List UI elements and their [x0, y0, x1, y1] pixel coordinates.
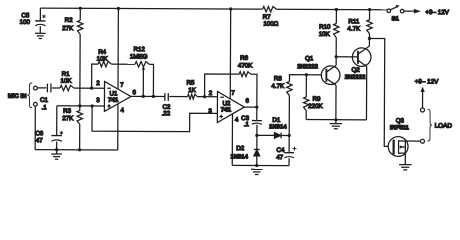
wire R3 to ground rail	[79, 124, 81, 149]
wire R4 leg from pin2	[92, 64, 99, 88]
wire S1 to supply arrow	[404, 10, 414, 12]
svg-text:27K: 27K	[62, 25, 74, 32]
capacitor C2	[164, 93, 166, 101]
wire C2 to R5	[169, 96, 187, 98]
svg-text:+9– 12V: +9– 12V	[415, 78, 439, 85]
terminal mic in hot	[34, 86, 38, 90]
svg-text:R5: R5	[187, 79, 196, 86]
node Q1 collector Q2 base	[335, 55, 338, 58]
node rail junction U2 pin7	[229, 7, 232, 10]
svg-text:47: 47	[276, 154, 283, 161]
wire R6 left leg	[205, 74, 240, 97]
svg-text:6: 6	[133, 89, 137, 96]
svg-text:470K: 470K	[238, 62, 253, 69]
resistor R6	[239, 72, 251, 77]
node rail junction U1 pin7	[117, 7, 120, 10]
wire detector to D1	[257, 134, 275, 136]
diode D1	[274, 133, 280, 139]
svg-text:R3: R3	[63, 108, 72, 115]
node detector ground	[255, 164, 258, 167]
node base R9 tap	[305, 73, 308, 76]
svg-text:3: 3	[208, 108, 212, 115]
wire C5 to ground	[39, 26, 41, 33]
wire Q2 emitter drop	[365, 67, 367, 120]
svg-text:C1: C1	[40, 97, 49, 104]
ground under Q3	[399, 164, 411, 166]
node U2 pin2 R6 tap	[203, 95, 206, 98]
node ground rail R3	[78, 148, 81, 151]
capacitor C5	[35, 20, 45, 22]
wire Q1 emitter drop	[335, 85, 337, 119]
wire U1 pin4 to ground rail	[117, 104, 119, 150]
svg-text:R8: R8	[274, 75, 283, 82]
wire U2 output	[244, 106, 256, 108]
node rail junction R10	[335, 8, 338, 11]
wire detector ground run	[232, 164, 289, 166]
wire U1 pin7 to rail	[117, 8, 119, 89]
brace load	[427, 109, 432, 141]
svg-text:R12: R12	[133, 46, 145, 53]
capacitor C3	[252, 120, 262, 122]
resistor R2	[77, 20, 82, 34]
svg-text:100Ω: 100Ω	[263, 21, 278, 28]
terminal mic in ground	[33, 102, 37, 106]
wire R11 to Q2 collector	[368, 34, 370, 47]
capacitor C6	[51, 135, 62, 137]
switch S1	[387, 9, 391, 13]
svg-text:100: 100	[20, 19, 31, 26]
node Q2 collector gate takeoff	[368, 37, 371, 40]
svg-text:+9– 12V: +9– 12V	[425, 9, 449, 16]
wire R4 to R12	[111, 63, 135, 65]
svg-text:R10: R10	[319, 24, 331, 31]
svg-text:741: 741	[108, 97, 119, 104]
svg-text:7: 7	[120, 82, 124, 89]
svg-text:4: 4	[120, 107, 124, 114]
svg-text:1N914: 1N914	[269, 124, 287, 130]
node rail junction R2	[79, 7, 82, 10]
resistor R9	[305, 75, 307, 97]
resistor R12	[135, 62, 149, 67]
transistor Q3	[388, 137, 408, 157]
svg-text:Q2: Q2	[351, 67, 360, 74]
node ground rail C6	[55, 148, 58, 151]
svg-text:R9: R9	[312, 96, 321, 103]
wire U1 output	[131, 95, 165, 97]
terminal load bottom	[420, 139, 424, 143]
resistor R8	[288, 95, 290, 135]
ground under bottom rail	[56, 150, 58, 154]
node emitter ground	[334, 118, 337, 121]
wire U1 pin3 bias line	[57, 105, 105, 107]
wire top supply rail right of R7	[276, 8, 386, 11]
svg-text:MIC IN: MIC IN	[8, 94, 27, 100]
svg-text:6: 6	[246, 98, 250, 105]
wire D1 to R8 node	[282, 134, 289, 136]
wire C5 from rail	[39, 8, 41, 20]
svg-text:4: 4	[235, 117, 239, 124]
wire Q2 base	[336, 56, 358, 58]
wire R12 right leg to output	[149, 64, 153, 96]
wire R1 to U1 pin2	[74, 87, 104, 89]
wire C6 to ground rail	[56, 142, 58, 150]
capacitor C1	[46, 84, 48, 93]
svg-text:D2: D2	[236, 145, 245, 152]
node output R12 wiper	[142, 95, 145, 98]
wire output to C3	[256, 107, 258, 120]
svg-text:2N2222: 2N2222	[345, 75, 366, 81]
svg-text:C4: C4	[277, 147, 286, 154]
wire Q3 source to ground	[404, 153, 406, 164]
transistor Q2	[352, 48, 371, 67]
node rail junction R11	[368, 8, 371, 11]
op-amp U2	[217, 91, 244, 122]
node feedback tap pin2	[90, 87, 93, 90]
svg-text:47: 47	[36, 137, 43, 144]
wire R12 wiper to output	[142, 69, 144, 97]
svg-text:R11: R11	[348, 18, 359, 25]
svg-text:2: 2	[209, 90, 213, 97]
wire R5 to U2 pin2	[197, 96, 217, 98]
svg-text:S1: S1	[391, 16, 399, 22]
capacitor C4	[284, 152, 294, 154]
node bias branch to U2	[91, 104, 94, 107]
wire Q3 drain to load	[405, 140, 420, 142]
label C6 polarity	[60, 131, 63, 135]
wire U2 pin4 drop	[231, 114, 233, 165]
transistor Q1	[321, 66, 340, 85]
brace mic input	[27, 83, 32, 108]
wire R8 to Q1 base	[289, 75, 321, 82]
ground under Q1 emitter	[335, 120, 337, 124]
wire gate riser to Q3	[369, 38, 389, 146]
svg-text:R6: R6	[240, 55, 249, 62]
svg-text:.1: .1	[244, 121, 250, 128]
resistor R10	[335, 10, 337, 24]
svg-text:220K: 220K	[308, 103, 323, 110]
wire bottom ground rail	[35, 149, 118, 151]
svg-text:27K: 27K	[62, 115, 74, 122]
svg-text:.1: .1	[42, 104, 48, 111]
wire R6 right leg	[251, 74, 257, 107]
wire rail to R2	[79, 8, 81, 20]
svg-text:IRF511: IRF511	[390, 125, 410, 131]
diode D2	[256, 135, 258, 149]
resistor R7	[263, 6, 277, 11]
svg-text:4.7K: 4.7K	[271, 83, 285, 90]
svg-text:3: 3	[96, 97, 100, 104]
svg-text:7: 7	[231, 90, 235, 97]
wire bias node to R3	[79, 106, 81, 111]
wire top supply rail left of R7	[40, 8, 262, 9]
wire R9 to ground run	[305, 111, 307, 120]
ground under D2	[251, 168, 262, 170]
svg-text:Q1: Q1	[305, 55, 314, 62]
svg-text:741: 741	[221, 106, 232, 113]
svg-text:LOAD: LOAD	[435, 123, 453, 130]
label C4 polarity	[292, 147, 296, 151]
node detector	[255, 134, 258, 137]
node D1 R8 C4	[288, 134, 291, 137]
resistor R1	[60, 85, 74, 90]
arrow load supply	[422, 90, 424, 107]
svg-text:1K: 1K	[188, 87, 196, 94]
svg-text:4.7K: 4.7K	[347, 25, 361, 32]
ground under C5	[35, 32, 46, 34]
wire Q1 collector riser	[335, 38, 337, 66]
svg-text:.22: .22	[162, 110, 171, 117]
node bias junction R2 R3	[78, 104, 81, 107]
svg-text:10K: 10K	[97, 56, 109, 63]
node U2 output	[255, 106, 258, 109]
svg-text:C6: C6	[35, 130, 44, 137]
svg-text:10K: 10K	[61, 78, 73, 85]
wire bias branch to U2 pin3	[92, 106, 217, 132]
wire mic hot to C1	[37, 87, 46, 89]
op-amp U1	[104, 81, 131, 111]
wire mic ground drop	[34, 106, 36, 149]
wire bias node to C6	[56, 106, 58, 135]
label C5 polarity	[42, 15, 45, 19]
resistor R5	[188, 94, 198, 99]
arrow supply +9-12V top	[414, 9, 421, 14]
wire C3 to detector node	[256, 125, 258, 136]
svg-text:2: 2	[96, 80, 100, 87]
svg-text:Q3: Q3	[396, 117, 405, 124]
svg-text:2N2222: 2N2222	[297, 64, 318, 70]
svg-text:R2: R2	[65, 17, 74, 24]
svg-text:D1: D1	[272, 117, 281, 124]
resistor R3	[77, 111, 82, 125]
wire C1 to R1	[52, 87, 60, 89]
node output R12 end	[152, 95, 155, 98]
svg-text:1N914: 1N914	[230, 154, 248, 160]
resistor R4	[98, 61, 111, 66]
wire U2 pin7 to rail	[229, 9, 231, 99]
svg-text:10K: 10K	[319, 31, 331, 38]
wire emitter ground run	[306, 119, 366, 121]
wire R2 to bias node	[79, 34, 81, 106]
svg-text:1MEG: 1MEG	[130, 53, 148, 60]
resistor R11	[369, 10, 371, 20]
terminal load top	[421, 108, 425, 112]
